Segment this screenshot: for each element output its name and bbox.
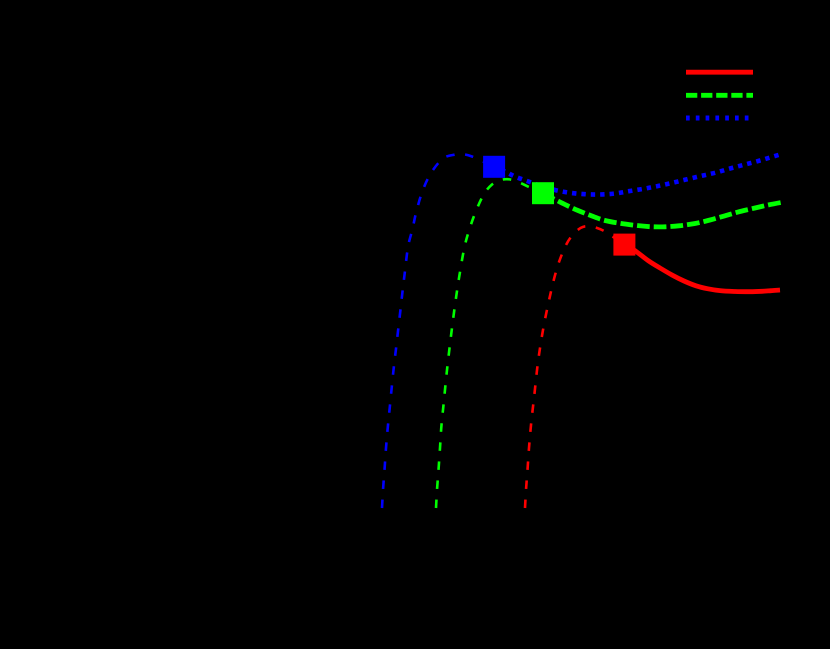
green training curve (dashed, pre-marker) bbox=[436, 179, 543, 508]
legend blue dotted line bbox=[686, 116, 753, 121]
green test curve (dashed, post-marker) bbox=[543, 194, 781, 227]
red square marker bbox=[613, 234, 635, 256]
red test curve (solid, post-marker) bbox=[624, 245, 780, 292]
red training curve (dashed, pre-marker) bbox=[525, 226, 624, 508]
blue square marker bbox=[483, 156, 505, 178]
green square marker bbox=[532, 182, 554, 204]
blue test curve (dotted, post-marker) bbox=[494, 154, 781, 194]
legend green dashed line bbox=[686, 93, 753, 98]
blue training curve (dashed, pre-marker) bbox=[382, 154, 494, 508]
legend red solid line bbox=[686, 70, 753, 75]
